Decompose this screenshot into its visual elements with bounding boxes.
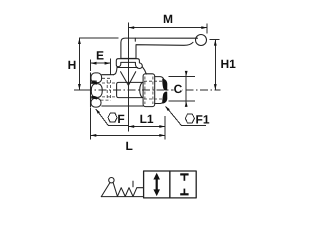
svg-text:L: L: [126, 139, 133, 153]
svg-text:F: F: [117, 112, 124, 126]
svg-text:C: C: [174, 82, 183, 96]
svg-text:H: H: [68, 58, 77, 72]
svg-text:M: M: [163, 12, 173, 26]
svg-text:H1: H1: [221, 57, 237, 71]
svg-text:L1: L1: [140, 112, 154, 126]
svg-text:E: E: [96, 49, 104, 63]
svg-text:F1: F1: [196, 112, 210, 126]
